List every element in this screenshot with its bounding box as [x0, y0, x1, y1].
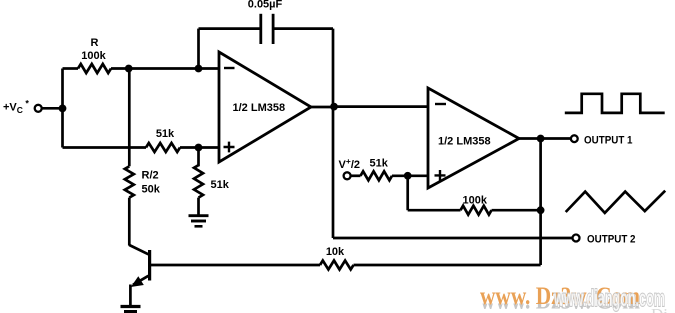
- svg-text:51k: 51k: [156, 128, 175, 140]
- svg-text:OUTPUT 2: OUTPUT 2: [587, 234, 636, 246]
- svg-text:1/2 LM358: 1/2 LM358: [438, 136, 491, 148]
- svg-text:1/2 LM358: 1/2 LM358: [233, 102, 286, 114]
- svg-text:0.05µF: 0.05µF: [248, 0, 283, 11]
- svg-text:100k: 100k: [463, 194, 488, 206]
- svg-text:www.diangon.com: www.diangon.com: [553, 285, 665, 311]
- svg-text:Di: Di: [651, 305, 668, 313]
- svg-text:R/2: R/2: [142, 170, 159, 182]
- svg-text:OUTPUT 1: OUTPUT 1: [584, 135, 633, 147]
- svg-text:100k: 100k: [81, 50, 106, 62]
- svg-text:50k: 50k: [142, 183, 161, 195]
- svg-text:10k: 10k: [326, 246, 345, 258]
- svg-text:51k: 51k: [211, 179, 230, 191]
- svg-text:51k: 51k: [370, 158, 389, 170]
- svg-text:R: R: [91, 37, 99, 49]
